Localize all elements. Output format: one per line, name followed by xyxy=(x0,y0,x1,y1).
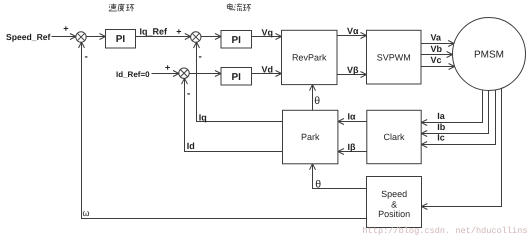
block RevPark transform xyxy=(282,30,338,84)
wire Vc: SVPWM to PMSM xyxy=(421,64,455,70)
svg-text:Position: Position xyxy=(378,209,410,219)
summing junction J2 (iq error) xyxy=(191,32,201,42)
block SVPWM xyxy=(367,30,422,84)
wire J3 to d-axis PI xyxy=(189,71,222,77)
label minus at J2 xyxy=(199,52,202,63)
block PI q-axis current regulator xyxy=(221,31,252,49)
label Id_Ref=0 xyxy=(116,70,150,79)
svg-text:Speed_Ref: Speed_Ref xyxy=(6,32,51,42)
svg-text:Iq_Ref: Iq_Ref xyxy=(140,27,169,37)
svg-text:Vα: Vα xyxy=(347,26,359,36)
wire Id feedback: Park to J3 xyxy=(182,78,283,151)
svg-text:Iβ: Iβ xyxy=(348,142,357,152)
wire Iq feedback: Park to J2 xyxy=(194,42,283,122)
wire omega feedback: Speed&Position to J1 xyxy=(79,42,367,219)
wire Vq: q-axis PI to RevPark xyxy=(252,34,282,40)
label Ialpha xyxy=(348,112,357,122)
svg-text:PI: PI xyxy=(231,72,241,83)
wire Vd: d-axis PI to RevPark xyxy=(252,71,282,77)
label Ibeta xyxy=(348,142,357,152)
label minus at J3 xyxy=(187,89,190,100)
label Vb xyxy=(431,44,443,54)
svg-text:Iα: Iα xyxy=(348,112,357,122)
svg-text:Ia: Ia xyxy=(437,111,446,121)
label plus at J1 xyxy=(63,24,68,34)
svg-text:ω: ω xyxy=(83,208,90,218)
label Iq xyxy=(199,113,207,123)
label Ib xyxy=(437,122,446,132)
svg-text:+: + xyxy=(176,27,181,37)
svg-text:PI: PI xyxy=(231,35,241,46)
svg-text:+: + xyxy=(63,24,68,34)
block Clark transform xyxy=(367,110,421,163)
svg-text:Vb: Vb xyxy=(431,44,443,54)
label Speed_Ref xyxy=(6,32,51,42)
label plus at J3 xyxy=(165,62,170,72)
wire Ia: PMSM to Clark xyxy=(421,90,482,126)
svg-text:&: & xyxy=(391,199,397,209)
wire Va: SVPWM to PMSM xyxy=(421,41,455,47)
wire Vbeta: RevPark to SVPWM xyxy=(337,72,367,78)
svg-text:Id: Id xyxy=(187,141,195,151)
wire Speed_Ref to sum junction J1 xyxy=(52,34,77,40)
svg-text:Clark: Clark xyxy=(383,132,405,142)
label omega feedback xyxy=(83,208,90,218)
label Id xyxy=(187,141,195,151)
label Valpha xyxy=(347,26,359,36)
caption current loop (dian liu huan) xyxy=(227,3,251,11)
svg-text:http://blog.csdn. net/hducolli: http://blog.csdn. net/hducollins xyxy=(363,226,528,235)
svg-text:Vc: Vc xyxy=(431,55,442,65)
svg-text:Ib: Ib xyxy=(437,122,446,132)
svg-text:PI: PI xyxy=(116,34,126,45)
svg-text:RevPark: RevPark xyxy=(292,53,327,63)
wire Ic: PMSM to Clark xyxy=(421,90,495,148)
svg-text:Vβ: Vβ xyxy=(347,65,359,75)
svg-text:θ: θ xyxy=(315,178,321,190)
svg-text:Vd: Vd xyxy=(262,64,274,74)
wire J2 to q-axis PI xyxy=(201,34,222,40)
label minus at J1 xyxy=(85,52,88,63)
summing junction J1 (speed error) xyxy=(76,32,86,42)
block PI d-axis current regulator xyxy=(221,68,252,86)
label Vd xyxy=(262,64,274,74)
wire theta: Speed&Position to Park xyxy=(310,164,367,189)
label Ia xyxy=(437,111,446,121)
svg-text:+: + xyxy=(165,62,170,72)
label theta lower (into Park) xyxy=(315,178,321,190)
wire Id_Ref=0 to sum junction J3 xyxy=(152,71,180,77)
caption speed loop (su du huan) xyxy=(109,4,134,12)
wire rotor sensor: PMSM to Speed&Position xyxy=(421,89,501,210)
svg-text:Va: Va xyxy=(431,33,443,43)
label Vbeta xyxy=(347,65,359,75)
wire Ialpha: Clark to Park xyxy=(338,119,367,125)
label Vc xyxy=(431,55,442,65)
wire Ibeta: Clark to Park xyxy=(338,149,367,155)
block Speed & Position estimator xyxy=(367,177,422,228)
label Ic xyxy=(437,133,445,143)
svg-text:PMSM: PMSM xyxy=(474,50,504,61)
wire Valpha: RevPark to SVPWM xyxy=(337,33,367,39)
wire Ib: PMSM to Clark xyxy=(421,91,488,137)
label plus at J2 xyxy=(176,27,181,37)
svg-text:θ: θ xyxy=(314,95,320,107)
wire J1 to PI speed block xyxy=(87,34,106,40)
svg-text:-: - xyxy=(85,52,88,63)
label Va xyxy=(431,33,443,43)
wire Vb: SVPWM to PMSM xyxy=(421,52,453,58)
block Park transform xyxy=(283,110,338,164)
wire Iq_Ref: speed PI to sum junction J2 xyxy=(136,34,191,40)
svg-text:Ic: Ic xyxy=(437,133,445,143)
label Iq_Ref xyxy=(140,27,169,37)
svg-text:Id_Ref=0: Id_Ref=0 xyxy=(116,70,150,79)
motor PMSM xyxy=(453,18,526,91)
svg-text:Iq: Iq xyxy=(199,113,207,123)
svg-text:-: - xyxy=(187,89,190,100)
block PI speed regulator xyxy=(106,30,136,49)
svg-text:SVPWM: SVPWM xyxy=(377,52,411,62)
svg-text:Park: Park xyxy=(301,132,320,142)
summing junction J3 (id error) xyxy=(179,68,189,78)
wire theta: Park to RevPark xyxy=(310,85,316,111)
label Vq xyxy=(262,27,274,37)
label theta upper (into RevPark) xyxy=(314,95,320,107)
svg-text:-: - xyxy=(199,52,202,63)
svg-text:Speed: Speed xyxy=(381,189,407,199)
watermark blog url xyxy=(363,226,528,236)
svg-text:Vq: Vq xyxy=(262,27,274,37)
